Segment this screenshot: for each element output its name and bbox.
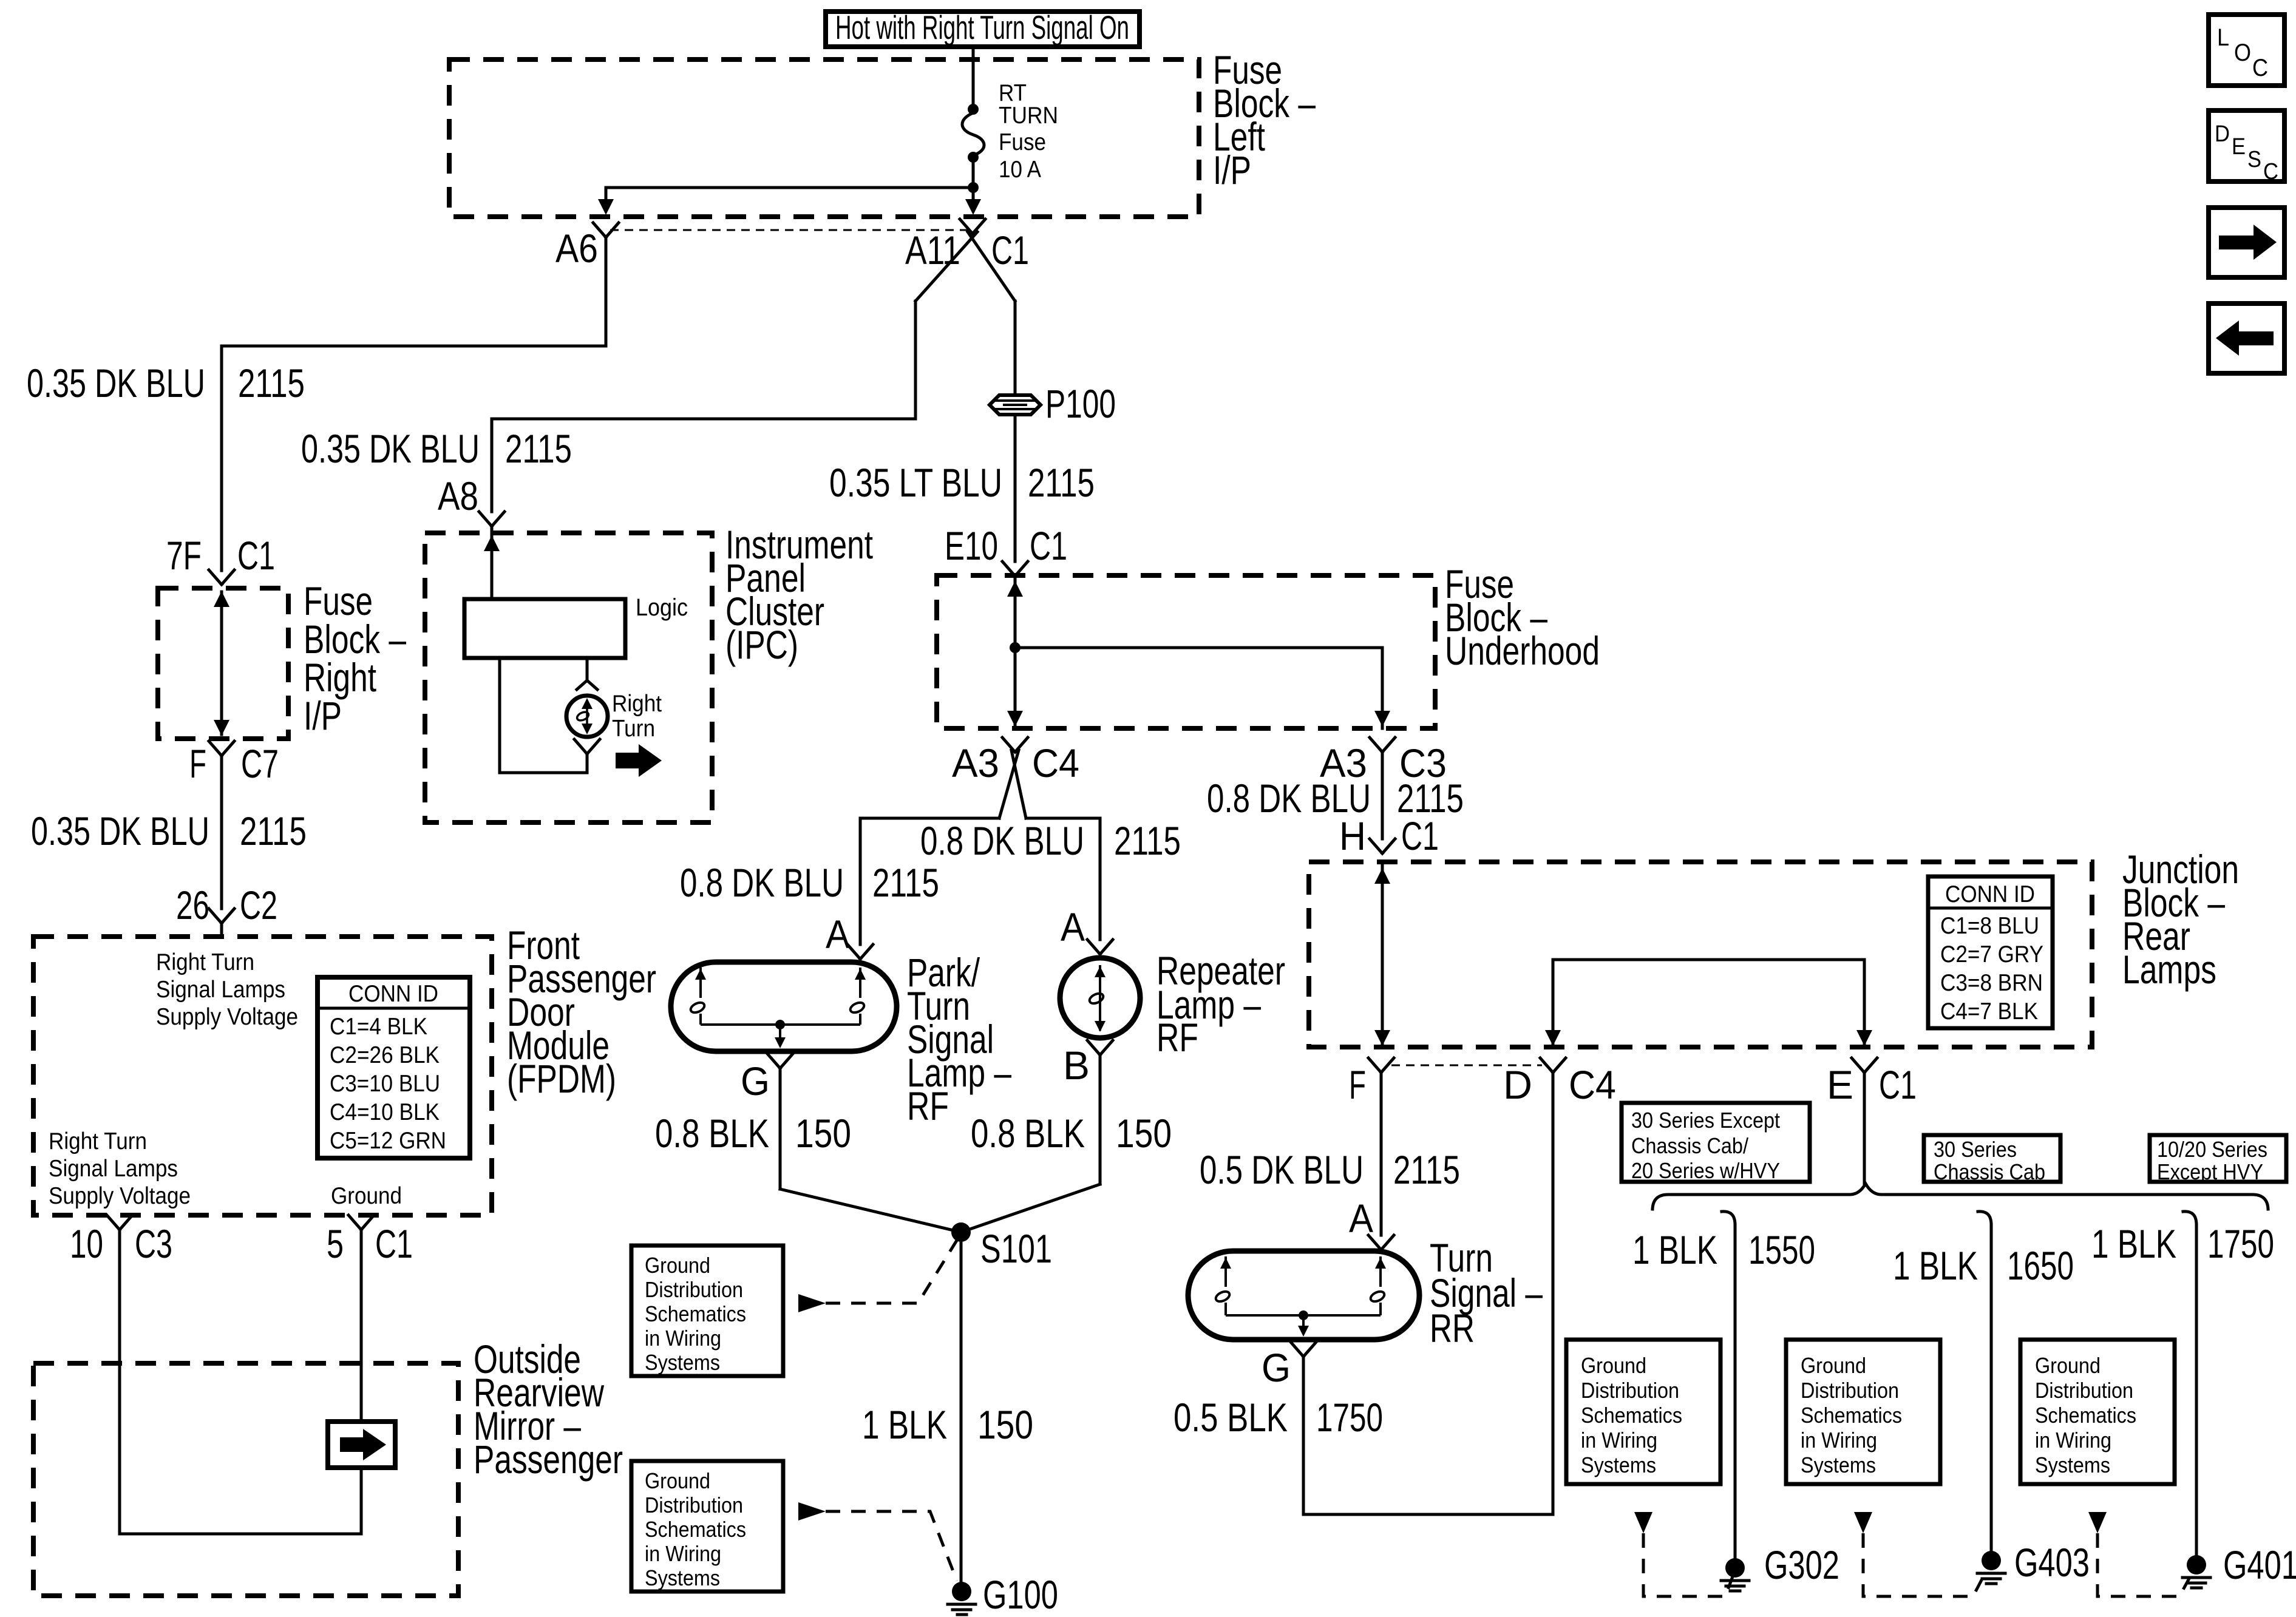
svg-text:0.35 DK BLU: 0.35 DK BLU [301,426,480,471]
svg-text:(IPC): (IPC) [725,622,798,667]
svg-text:Hot with Right Turn Signal On: Hot with Right Turn Signal On [835,8,1129,46]
svg-text:CONN ID: CONN ID [1945,881,2035,907]
svg-text:2115: 2115 [238,361,305,405]
svg-text:Chassis Cab: Chassis Cab [1934,1159,2045,1184]
svg-text:2115: 2115 [1114,818,1181,863]
svg-text:Distribution: Distribution [1581,1378,1679,1403]
svg-text:Right Turn: Right Turn [49,1128,147,1154]
svg-text:C1: C1 [1879,1062,1917,1107]
svg-text:Distribution: Distribution [1801,1378,1899,1403]
svg-text:A11: A11 [905,228,960,273]
svg-text:Ground: Ground [1801,1353,1866,1378]
svg-text:Lamps: Lamps [2122,947,2216,992]
svg-text:Systems: Systems [645,1350,720,1375]
svg-text:0.5 BLK: 0.5 BLK [1173,1395,1288,1440]
svg-text:10 A: 10 A [999,157,1041,183]
svg-text:0.35 DK BLU: 0.35 DK BLU [27,361,205,405]
svg-text:A: A [826,912,850,957]
svg-text:in Wiring: in Wiring [645,1541,721,1566]
svg-text:Distribution: Distribution [645,1493,743,1517]
svg-text:Ground: Ground [1581,1353,1646,1378]
svg-text:Supply Voltage: Supply Voltage [156,1004,298,1030]
svg-text:in Wiring: in Wiring [645,1326,721,1351]
svg-text:150: 150 [795,1111,851,1156]
svg-text:C1: C1 [237,533,275,578]
svg-text:1 BLK: 1 BLK [1893,1243,1978,1288]
svg-text:C1: C1 [375,1221,413,1266]
svg-text:1 BLK: 1 BLK [1632,1227,1717,1272]
svg-text:C3: C3 [135,1221,172,1266]
svg-text:Schematics: Schematics [2035,1403,2136,1428]
svg-text:Right: Right [612,691,662,717]
svg-text:20 Series w/HVY: 20 Series w/HVY [1631,1158,1780,1183]
svg-text:0.8 DK BLU: 0.8 DK BLU [680,860,844,905]
svg-text:G: G [741,1059,770,1103]
svg-text:G100: G100 [983,1572,1058,1617]
svg-text:Ground: Ground [331,1183,402,1209]
svg-text:A: A [1349,1196,1373,1241]
svg-text:Distribution: Distribution [645,1277,743,1302]
svg-text:0.8 BLK: 0.8 BLK [655,1111,769,1156]
svg-text:Turn: Turn [612,716,655,742]
svg-text:Schematics: Schematics [645,1517,746,1542]
svg-text:C1: C1 [991,228,1029,273]
svg-text:in Wiring: in Wiring [2035,1428,2111,1453]
svg-text:Schematics: Schematics [1801,1403,1902,1428]
svg-text:C1: C1 [1401,813,1439,858]
svg-text:26: 26 [176,883,209,927]
svg-text:150: 150 [977,1402,1033,1447]
svg-text:Ground: Ground [645,1468,710,1493]
svg-text:Right Turn: Right Turn [156,949,254,975]
svg-text:O: O [2234,39,2251,66]
svg-text:D: D [1503,1062,1532,1107]
svg-text:1 BLK: 1 BLK [862,1402,947,1447]
svg-text:CONN ID: CONN ID [348,981,438,1007]
svg-text:1550: 1550 [1748,1227,1815,1272]
svg-text:F: F [189,741,206,786]
svg-text:30 Series: 30 Series [1934,1137,2017,1162]
svg-text:C4=7 BLK: C4=7 BLK [1940,998,2038,1025]
svg-text:C4=10 BLK: C4=10 BLK [330,1099,440,1125]
svg-text:10/20 Series: 10/20 Series [2157,1137,2267,1162]
svg-text:D: D [2215,121,2230,147]
svg-text:E10: E10 [945,523,998,568]
svg-text:C1=8 BLU: C1=8 BLU [1940,913,2039,939]
svg-text:10: 10 [70,1221,103,1266]
svg-text:0.5 DK BLU: 0.5 DK BLU [1200,1147,1364,1192]
svg-text:I/P: I/P [1213,147,1251,192]
svg-text:Ground: Ground [645,1253,710,1278]
svg-text:RF: RF [1156,1015,1198,1060]
svg-text:A8: A8 [438,473,478,518]
svg-text:C2: C2 [240,883,277,927]
svg-text:Systems: Systems [645,1565,720,1590]
svg-text:2115: 2115 [505,426,572,471]
svg-text:1750: 1750 [2207,1221,2274,1266]
svg-text:in Wiring: in Wiring [1801,1428,1877,1453]
svg-text:F: F [1349,1062,1366,1107]
svg-text:S101: S101 [980,1226,1052,1271]
svg-text:2115: 2115 [1393,1147,1460,1192]
svg-text:Supply Voltage: Supply Voltage [49,1183,191,1209]
svg-text:Ground: Ground [2035,1353,2101,1378]
svg-text:Signal Lamps: Signal Lamps [156,977,285,1003]
svg-text:C3=8 BRN: C3=8 BRN [1940,970,2043,996]
svg-text:(FPDM): (FPDM) [507,1056,616,1101]
svg-text:Underhood: Underhood [1445,628,1600,673]
svg-text:Distribution: Distribution [2035,1378,2133,1403]
svg-text:1650: 1650 [2007,1243,2074,1288]
svg-text:7F: 7F [166,533,202,578]
svg-text:in Wiring: in Wiring [1581,1428,1657,1453]
svg-text:RF: RF [907,1083,949,1128]
svg-text:H: H [1339,813,1366,858]
svg-text:Schematics: Schematics [645,1301,746,1326]
svg-text:Logic: Logic [636,594,688,621]
svg-text:2115: 2115 [240,808,307,853]
svg-text:Fuse: Fuse [999,129,1046,155]
svg-text:0.8 DK BLU: 0.8 DK BLU [920,818,1084,863]
svg-text:Passenger: Passenger [474,1437,623,1482]
svg-text:1750: 1750 [1316,1395,1383,1440]
svg-text:Chassis Cab/: Chassis Cab/ [1631,1133,1748,1158]
svg-text:C3=10 BLU: C3=10 BLU [330,1071,440,1097]
svg-text:Systems: Systems [1801,1453,1876,1477]
svg-text:G401: G401 [2223,1542,2296,1587]
svg-text:C1=4 BLK: C1=4 BLK [330,1014,427,1040]
svg-text:C4: C4 [1569,1062,1616,1107]
svg-text:0.35 LT BLU: 0.35 LT BLU [829,460,1002,505]
svg-text:C4: C4 [1032,741,1079,785]
svg-text:RR: RR [1430,1306,1475,1351]
svg-text:C1: C1 [1030,523,1067,568]
svg-text:1 BLK: 1 BLK [2091,1221,2176,1266]
svg-text:5: 5 [327,1221,344,1266]
svg-text:S: S [2247,147,2261,172]
svg-text:0.35 DK BLU: 0.35 DK BLU [31,808,209,853]
svg-text:Except HVY: Except HVY [2157,1159,2263,1184]
svg-text:E: E [1827,1062,1853,1107]
svg-text:150: 150 [1116,1111,1172,1156]
svg-text:A3: A3 [952,741,999,785]
svg-text:G403: G403 [2014,1540,2090,1585]
svg-text:Signal Lamps: Signal Lamps [49,1156,178,1182]
svg-text:0.8 BLK: 0.8 BLK [971,1111,1085,1156]
svg-text:C2=7 GRY: C2=7 GRY [1940,941,2043,968]
svg-text:C7: C7 [241,741,279,786]
svg-text:C: C [2263,159,2278,185]
svg-text:C: C [2252,55,2268,81]
svg-text:Schematics: Schematics [1581,1403,1682,1428]
svg-text:A6: A6 [555,226,598,271]
svg-text:P100: P100 [1045,381,1116,426]
svg-text:G302: G302 [1764,1542,1839,1587]
svg-text:C5=12 GRN: C5=12 GRN [330,1128,446,1154]
svg-text:L: L [2217,24,2229,51]
svg-text:TURN: TURN [999,103,1058,129]
svg-text:G: G [1262,1345,1291,1390]
svg-text:30 Series Except: 30 Series Except [1631,1108,1780,1133]
svg-text:2115: 2115 [1028,460,1095,505]
svg-text:2115: 2115 [872,860,939,905]
svg-text:A: A [1061,904,1085,949]
svg-text:E: E [2232,134,2246,160]
svg-text:C2=26 BLK: C2=26 BLK [330,1042,440,1068]
svg-text:I/P: I/P [304,693,342,738]
svg-text:B: B [1063,1043,1090,1088]
svg-text:Systems: Systems [1581,1453,1656,1477]
svg-text:Systems: Systems [2035,1453,2110,1477]
